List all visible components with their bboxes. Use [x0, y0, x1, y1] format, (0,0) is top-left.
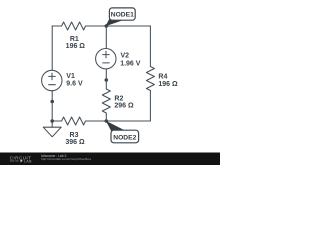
wire top-left vertical (node1 to V1 top): [51, 26, 53, 70]
svg-text:NODE2: NODE2: [113, 134, 136, 141]
footer logo underline lines: [10, 160, 15, 163]
junction dot bottom-left (ground): [50, 119, 54, 123]
svg-text:R2: R2: [114, 95, 123, 102]
svg-text:196 Ω: 196 Ω: [66, 43, 86, 50]
junction dot node2 (bottom middle): [105, 119, 109, 123]
V1 minus sign: [49, 84, 56, 86]
svg-text:396 Ω: 396 Ω: [65, 139, 85, 146]
svg-text:R4: R4: [158, 73, 167, 80]
footer black bar: [0, 153, 220, 166]
svg-text:V2: V2: [121, 53, 130, 60]
node NODE1 flag box: [109, 8, 135, 20]
node NODE2 flag box: [111, 130, 139, 143]
wire V1 bottom to bottom-left junction: [51, 91, 53, 121]
wire bottom horizontal with resistor R3: [52, 117, 150, 125]
voltage source V2 circle: [96, 49, 116, 69]
svg-text:296 Ω: 296 Ω: [114, 102, 134, 109]
V1 plus sign: [49, 73, 56, 80]
ground stem: [51, 121, 53, 127]
svg-text:http://circuitlab.com/c/rsu/pS: http://circuitlab.com/c/rsu/pShouffma: [41, 157, 91, 161]
node NODE1 flag pointer: [105, 18, 124, 26]
svg-text:1.96 V: 1.96 V: [120, 60, 141, 67]
svg-text:NODE1: NODE1: [111, 12, 134, 19]
footer logo lightning bolt: [20, 160, 23, 163]
wire top horizontal with resistor R1: [52, 22, 150, 30]
svg-text:R3: R3: [70, 132, 79, 139]
svg-text:196 Ω: 196 Ω: [158, 81, 178, 88]
resistor R4 vertical on right column: [146, 26, 154, 121]
junction dot V1 bottom terminal: [50, 100, 54, 104]
V2 plus sign: [103, 51, 110, 58]
voltage source V1 circle: [42, 70, 62, 90]
svg-text:LAB: LAB: [24, 160, 32, 164]
svg-text:9.6 V: 9.6 V: [66, 81, 83, 88]
node NODE2 flag pointer: [106, 121, 125, 132]
wire node1 junction down to V2 top: [105, 26, 107, 49]
svg-text:V1: V1: [66, 73, 75, 80]
junction dot V2 bottom terminal: [105, 78, 109, 82]
svg-text:R1: R1: [70, 36, 79, 43]
wire V2 bottom + resistor R2 + wire to bottom junction: [102, 69, 110, 121]
ground triangle: [43, 127, 61, 137]
junction dot node1 (top): [105, 24, 109, 28]
V2 minus sign: [103, 62, 110, 64]
